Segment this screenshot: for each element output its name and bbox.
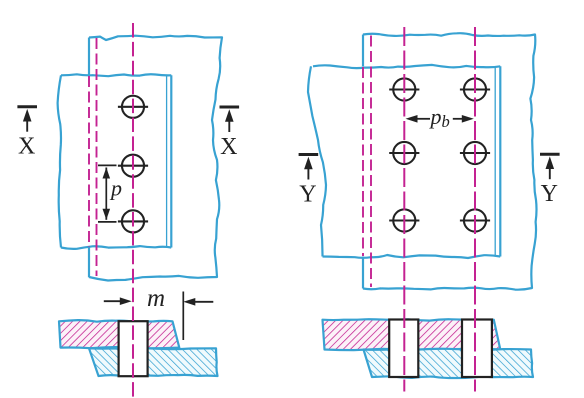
svg-text:p: p (109, 175, 122, 200)
svg-text:m: m (147, 285, 165, 312)
svg-text:Y: Y (299, 182, 316, 208)
svg-text:Y: Y (541, 181, 558, 207)
svg-text:X: X (18, 134, 35, 160)
svg-text:X: X (220, 134, 237, 160)
